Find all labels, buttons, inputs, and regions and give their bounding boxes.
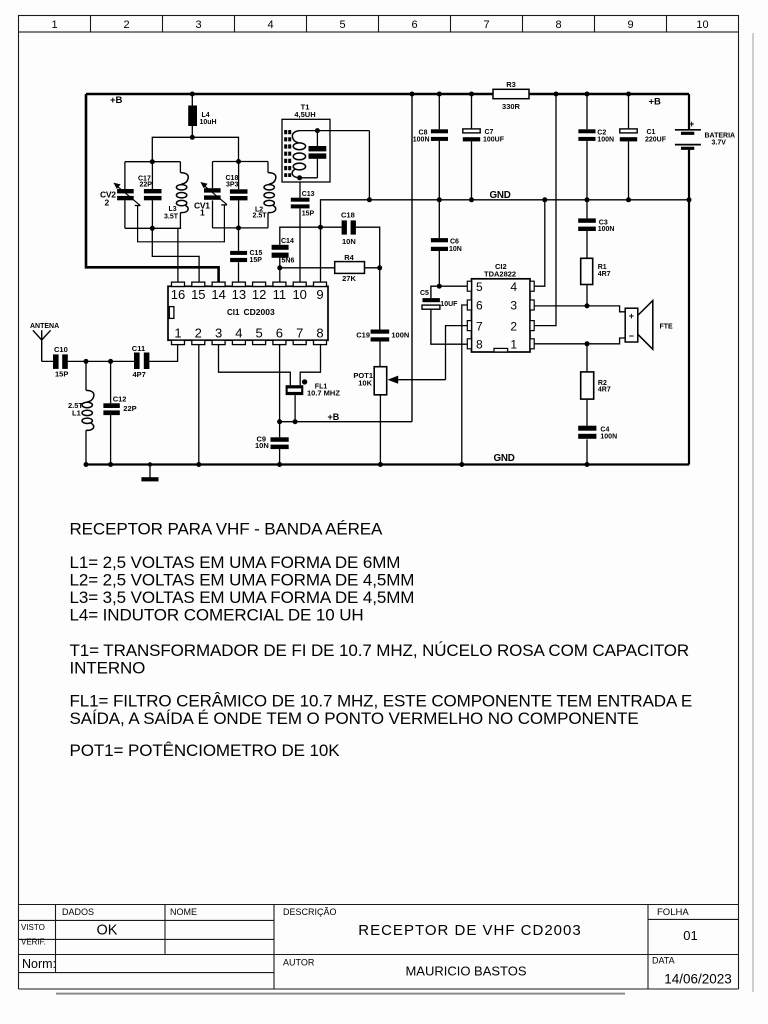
svg-text:10N: 10N [255, 441, 269, 450]
svg-text:13: 13 [232, 287, 246, 302]
wire pin 1 to speaker minus [534, 338, 625, 344]
svg-text:22P: 22P [123, 404, 136, 413]
wire left border to pin 14 [86, 94, 219, 283]
svg-text:C14: C14 [281, 238, 294, 245]
capacitor C4 100N [578, 426, 617, 465]
svg-text:27K: 27K [342, 274, 356, 283]
capacitor C11 4P7 [132, 344, 150, 379]
capacitor C2 100N [578, 94, 614, 200]
svg-text:FL1= FILTRO CERÂMICO DE 10.7 M: FL1= FILTRO CERÂMICO DE 10.7 MHZ, ESTE C… [70, 692, 693, 711]
svg-text:8: 8 [555, 19, 561, 31]
capacitor C6 10N [431, 200, 462, 286]
svg-text:TDA2822: TDA2822 [484, 270, 516, 279]
svg-text:OK: OK [97, 923, 118, 939]
svg-text:BATERIA: BATERIA [705, 133, 736, 140]
svg-text:5: 5 [339, 19, 345, 31]
speaker FTE [625, 301, 673, 350]
IC CI1 CD2003 [168, 286, 328, 340]
svg-text:+B: +B [328, 412, 340, 422]
svg-text:22P: 22P [140, 181, 153, 188]
variable capacitor CV2 [100, 183, 141, 208]
tank 2 box wires [213, 162, 269, 228]
svg-text:2: 2 [195, 326, 202, 341]
svg-text:L3= 3,5 VOLTAS EM UMA FORMA DE: L3= 3,5 VOLTAS EM UMA FORMA DE 4,5MM [70, 588, 415, 607]
svg-text:3.7V: 3.7V [712, 140, 727, 147]
svg-text:10UF: 10UF [440, 301, 458, 308]
svg-text:7: 7 [476, 320, 483, 334]
battery BATERIA 3.7V [675, 119, 735, 148]
svg-text:+: + [689, 119, 694, 129]
wire T1 top to GND [368, 131, 370, 200]
wire tank1 to pin 16 [177, 228, 179, 282]
svg-text:FTE: FTE [660, 324, 674, 331]
svg-text:16: 16 [171, 287, 185, 302]
svg-text:2: 2 [510, 320, 517, 334]
svg-text:RECEPTOR PARA VHF - BANDA AÉRE: RECEPTOR PARA VHF - BANDA AÉREA [70, 520, 384, 539]
resistor R1 4R7 [581, 258, 611, 306]
transformer T1 4,5UH [282, 103, 369, 183]
wire CV2/CV1 wiper link [138, 205, 225, 242]
svg-text:9: 9 [627, 19, 633, 31]
pin numbers 16..9 [171, 287, 324, 302]
svg-text:11: 11 [273, 287, 287, 302]
svg-text:3: 3 [215, 326, 222, 341]
svg-text:AUTOR: AUTOR [283, 958, 315, 968]
capacitor C15 15P [230, 250, 262, 282]
svg-text:SAÍDA, A SAÍDA É ONDE TEM O PO: SAÍDA, A SAÍDA É ONDE TEM O PONTO VERMEL… [70, 709, 639, 728]
svg-text:+B: +B [110, 95, 123, 106]
svg-text:RECEPTOR DE VHF CD2003: RECEPTOR DE VHF CD2003 [358, 922, 581, 939]
svg-text:DESCRIÇÃO: DESCRIÇÃO [283, 907, 337, 917]
node +B right label [649, 97, 662, 108]
svg-text:L1= 2,5 VOLTAS EM UMA FORMA DE: L1= 2,5 VOLTAS EM UMA FORMA DE 6MM [70, 553, 401, 572]
svg-text:5: 5 [255, 326, 262, 341]
svg-text:C11: C11 [132, 344, 145, 353]
resistor R4 27K [280, 253, 380, 283]
svg-text:−: − [629, 331, 634, 341]
svg-text:10: 10 [696, 19, 708, 31]
svg-text:330R: 330R [502, 102, 521, 111]
node +B left label [110, 95, 123, 106]
ceramic filter FL1 10.7 MHZ [286, 379, 341, 422]
capacitor C14 5N6 [272, 227, 321, 282]
svg-text:100N: 100N [600, 434, 617, 441]
node GND bottom label [494, 453, 515, 464]
svg-text:3: 3 [195, 19, 201, 31]
svg-text:C6: C6 [450, 238, 459, 245]
svg-text:T1= TRANSFORMADOR DE FI DE 10.: T1= TRANSFORMADOR DE FI DE 10.7 MHZ, NÚC… [70, 641, 690, 660]
wire pin 6 to +B rail [279, 345, 281, 422]
svg-text:10N: 10N [449, 246, 462, 253]
wire tank1 to pin 15 [152, 228, 199, 282]
inductor L3 3.5T [164, 173, 188, 221]
svg-text:7: 7 [296, 326, 303, 341]
svg-text:L3: L3 [169, 206, 177, 213]
node +B mid label [328, 412, 340, 422]
antenna ANTENA [30, 323, 59, 361]
svg-text:10.7 MHZ: 10.7 MHZ [307, 388, 340, 397]
svg-text:6: 6 [276, 326, 283, 341]
wire pin 3 to speaker plus [534, 306, 625, 312]
svg-text:C5: C5 [420, 290, 429, 297]
svg-text:1: 1 [51, 19, 57, 31]
svg-text:VERIF.: VERIF. [21, 938, 46, 947]
svg-text:4P7: 4P7 [133, 370, 146, 379]
wire +B sub rail to FL1/C9 [280, 421, 412, 423]
svg-text:FOLHA: FOLHA [657, 907, 689, 918]
svg-text:L2= 2,5 VOLTAS EM UMA FORMA DE: L2= 2,5 VOLTAS EM UMA FORMA DE 4,5MM [70, 571, 415, 590]
pins 1..8 bottom stubs of CI1 [172, 340, 327, 344]
svg-text:12: 12 [252, 287, 266, 302]
svg-text:+B: +B [649, 97, 662, 108]
svg-text:GND: GND [490, 190, 511, 201]
wire L4 to tank1 and tank2 feed [152, 137, 238, 161]
svg-text:POT1= POTÊNCIOMETRO DE 10K: POT1= POTÊNCIOMETRO DE 10K [70, 741, 341, 760]
capacitor C10 15P [53, 345, 68, 379]
svg-text:8: 8 [476, 338, 483, 352]
pin numbers 1..8 [174, 326, 323, 341]
svg-text:C7: C7 [485, 129, 494, 136]
inductor L1 2.5T [68, 361, 94, 464]
variable capacitor CV1 [194, 182, 227, 218]
ground symbol [141, 465, 158, 482]
pin numbers CI2 [476, 280, 517, 352]
svg-text:220UF: 220UF [645, 137, 667, 144]
svg-text:100N: 100N [413, 137, 430, 144]
inductor L2 2.5T [253, 173, 276, 220]
capacitor C18 3P3 [226, 162, 248, 228]
pins 4,3,2,1 right stubs of CI2 [530, 281, 534, 349]
wire pin 6 of CI2 to ground rail [462, 305, 468, 465]
svg-text:L4: L4 [202, 112, 210, 119]
svg-text:8: 8 [316, 326, 323, 341]
svg-text:14: 14 [211, 287, 225, 302]
svg-text:100N: 100N [598, 226, 615, 233]
capacitor C7 100UF [463, 94, 505, 200]
resistor R2 4R7 [581, 344, 611, 426]
svg-text:10K: 10K [358, 378, 372, 387]
svg-text:C1: C1 [647, 129, 656, 136]
svg-text:10: 10 [292, 287, 306, 302]
pins 5,6,7,8 left stubs of CI2 [467, 281, 471, 349]
svg-text:L1: L1 [72, 409, 81, 418]
wire pin 3 to FL1 input [219, 345, 291, 386]
svg-text:R3: R3 [506, 80, 516, 89]
wire GND mid rail [321, 200, 690, 227]
wire bottom ground rail [86, 463, 689, 465]
wire C6 to pin 5 [439, 285, 467, 287]
svg-text:3P3: 3P3 [226, 182, 239, 189]
svg-text:VISTO: VISTO [21, 923, 45, 932]
wire tank2 to C15 [238, 228, 240, 251]
svg-text:C12: C12 [113, 395, 127, 404]
svg-text:C2: C2 [597, 130, 606, 137]
svg-text:Norm:: Norm: [22, 957, 56, 971]
svg-text:10uH: 10uH [200, 119, 217, 126]
svg-text:C13: C13 [302, 191, 315, 198]
pins 16..9 top stubs of CI1 [172, 282, 327, 286]
tank 1 box wires [125, 162, 181, 229]
svg-text:C8: C8 [419, 130, 428, 137]
svg-text:ANTENA: ANTENA [30, 323, 59, 330]
svg-text:1: 1 [510, 338, 517, 352]
svg-text:14/06/2023: 14/06/2023 [664, 972, 732, 987]
svg-text:CD2003: CD2003 [244, 307, 275, 317]
svg-text:NOME: NOME [170, 907, 197, 917]
wire antenna input [42, 345, 178, 362]
svg-text:+: + [629, 311, 634, 321]
svg-text:5N6: 5N6 [282, 258, 295, 265]
svg-text:3: 3 [510, 299, 517, 313]
inductor L4 10uH [188, 94, 216, 137]
svg-text:2.5T: 2.5T [253, 212, 268, 219]
capacitor C5 10UF [420, 286, 467, 344]
svg-text:4: 4 [235, 326, 242, 341]
svg-text:1: 1 [174, 326, 181, 341]
wire pin 4 to GND [534, 200, 545, 286]
svg-text:C19: C19 [356, 331, 370, 340]
potentiometer POT1 10K [353, 367, 445, 465]
svg-text:100N: 100N [597, 137, 614, 144]
svg-text:DATA: DATA [652, 956, 675, 966]
svg-text:15: 15 [191, 287, 205, 302]
svg-text:MAURICIO BASTOS: MAURICIO BASTOS [405, 964, 526, 979]
capacitor C12 22P [103, 361, 136, 464]
svg-text:15P: 15P [302, 211, 315, 218]
svg-text:6: 6 [476, 299, 483, 313]
svg-text:01: 01 [683, 928, 697, 943]
capacitor C9 10N [255, 422, 289, 465]
capacitor C19 100N [356, 268, 409, 367]
wire +B vertical drop x=412 [411, 94, 413, 422]
svg-text:4R7: 4R7 [598, 271, 611, 278]
svg-text:15P: 15P [55, 370, 68, 379]
wire pin 7 to POT1 wiper [446, 326, 468, 380]
svg-text:100UF: 100UF [483, 137, 505, 144]
svg-text:1: 1 [200, 208, 205, 218]
svg-text:9: 9 [316, 287, 323, 302]
capacitor C1 220UF [620, 94, 667, 200]
svg-text:4: 4 [267, 19, 273, 31]
wire +B top rail [86, 93, 689, 95]
svg-text:4,5UH: 4,5UH [294, 110, 315, 119]
svg-text:C18: C18 [341, 210, 355, 219]
svg-text:GND: GND [494, 453, 515, 464]
svg-text:C10: C10 [54, 345, 68, 354]
wire pin 2 to ground rail [198, 345, 200, 465]
svg-text:5: 5 [476, 280, 483, 294]
svg-text:2: 2 [105, 198, 110, 208]
IC CI2 TDA2822 [472, 262, 531, 352]
svg-text:INTERNO: INTERNO [70, 659, 146, 678]
svg-text:4R7: 4R7 [598, 387, 611, 394]
resistor R3 [493, 80, 529, 111]
wire GND to pin 9 [320, 227, 322, 282]
svg-text:2: 2 [123, 19, 129, 31]
capacitor C3 100N [578, 200, 614, 258]
svg-text:4: 4 [510, 280, 517, 294]
node GND mid label [490, 190, 511, 201]
capacitor C18 10N [321, 210, 380, 267]
capacitor C13 15P [291, 182, 315, 283]
svg-text:15P: 15P [250, 257, 263, 264]
wire battery right side down [688, 94, 690, 465]
svg-text:10N: 10N [342, 237, 356, 246]
capacitor C17 22P [138, 162, 162, 229]
svg-text:L4= INDUTOR COMERCIAL DE 10 UH: L4= INDUTOR COMERCIAL DE 10 UH [70, 606, 364, 625]
svg-text:DADOS: DADOS [62, 907, 94, 917]
svg-text:3.5T: 3.5T [164, 214, 179, 221]
svg-text:R4: R4 [344, 253, 354, 262]
svg-text:6: 6 [411, 19, 417, 31]
svg-text:100N: 100N [391, 331, 409, 340]
svg-text:7: 7 [483, 19, 489, 31]
wire pin 8 to FL1 output [300, 345, 320, 386]
wire pin 2 to +B [534, 94, 556, 326]
capacitor C8 100N [413, 94, 448, 200]
svg-text:CI1: CI1 [227, 308, 240, 317]
